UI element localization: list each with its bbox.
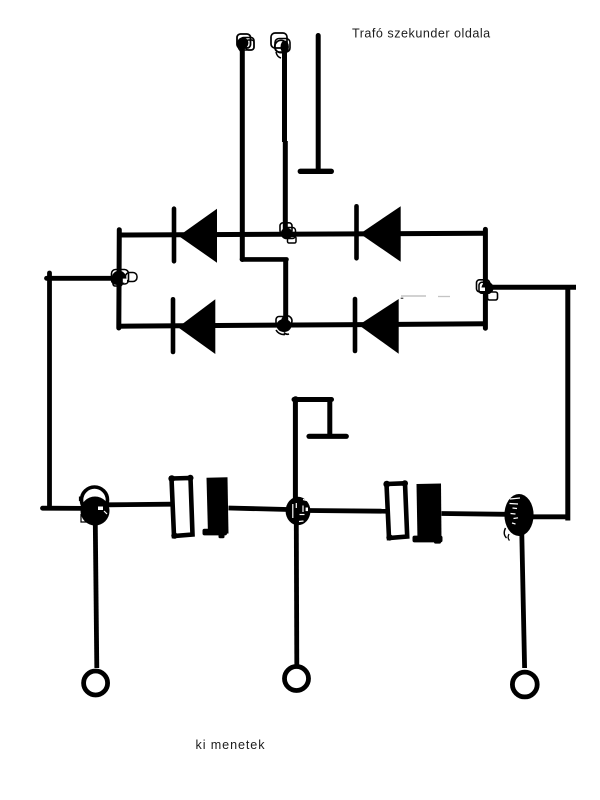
wire: bottom rail, center junction to right capacitor xyxy=(308,508,386,514)
lead C: end bar xyxy=(300,169,331,174)
ground symbol bottom bar xyxy=(309,434,346,439)
bridge: right edge xyxy=(483,229,488,328)
junction blob J1 (lead B joins top rail) xyxy=(280,223,296,243)
wire: center output lead down from J5 xyxy=(294,524,299,665)
diode D3 (bottom-left) triangle xyxy=(178,299,215,354)
diode D2 (top-right) cathode bar xyxy=(354,206,359,258)
ground symbol right vertical xyxy=(327,400,332,437)
wire: lead B vertical upper (x≈284.5, y 48-142) xyxy=(282,48,287,142)
wire: left branch horizontal (bridge left junction to left rail corner) xyxy=(47,276,120,281)
capacitor C2 left plate (outline) xyxy=(387,483,408,538)
output terminal ring O2 (center) xyxy=(285,667,309,691)
capacitor C1 left plate (outline) xyxy=(172,478,193,536)
ground symbol horizontal xyxy=(294,397,332,402)
ground symbol (center tap above rail): corner xyxy=(292,396,299,403)
bridge: bottom rail xyxy=(117,324,487,326)
svg-text:ki menetek: ki menetek xyxy=(196,738,266,752)
wire: right branch horizontal from bridge right junction xyxy=(490,285,576,290)
wire: left output lead down from Q1 xyxy=(95,524,97,668)
capacitor C2 right plate (solid) xyxy=(413,484,443,544)
wire: lead A lower vertical (x≈285.7) down to bottom bridge rail xyxy=(283,259,288,323)
wire: left branch vertical (x≈49.5) xyxy=(47,273,52,506)
output terminal ring O3 (right) xyxy=(512,672,537,697)
wire: lead A jog horizontal at y≈259 xyxy=(242,257,287,262)
wire: bottom rail left segment xyxy=(43,506,85,511)
wire: right branch vertical (x≈567.8) xyxy=(565,287,570,520)
junction blob J2 (lead A joins bottom rail) xyxy=(276,316,292,335)
terminal blob T1 (top of secondary lead A) xyxy=(237,34,254,53)
output terminal ring O1 (left) xyxy=(84,671,108,695)
wire: right branch bottom horizontal into blob Q2 xyxy=(531,514,570,519)
transistor blob Q1 (left): scribbled ring + filled body xyxy=(80,487,110,526)
bridge: top rail xyxy=(119,233,488,235)
diode D1 (top-left) triangle xyxy=(179,209,217,263)
diode D4 (bottom-right) triangle xyxy=(359,299,399,354)
wire: bottom rail, C1 to center junction xyxy=(229,508,289,510)
junction blob J5 (center of output rail) xyxy=(286,497,311,525)
junction blob J3 (left mid-point of bridge) xyxy=(112,270,138,287)
faint erased marks near D4 xyxy=(401,295,450,298)
diode D4 (bottom-right) cathode bar xyxy=(353,299,358,351)
lead C: transformer center lead vertical (x≈318) xyxy=(316,36,321,172)
wire: lead A vertical (x≈242) from blob down across top bridge rail xyxy=(240,45,245,260)
wire: right output lead down from Q2 xyxy=(522,534,525,668)
diode D3 (bottom-left) cathode bar xyxy=(171,299,176,352)
diode D2 (top-right) triangle xyxy=(360,206,401,261)
svg-text:Trafó szekunder oldala: Trafó szekunder oldala xyxy=(352,27,491,41)
junction blob J4 (right mid-point of bridge) xyxy=(477,280,498,300)
bridge: left edge xyxy=(116,230,122,328)
wire: bottom rail, C2 to right blob xyxy=(442,511,508,517)
terminal blob T2 (top of secondary lead B) xyxy=(271,33,290,58)
diode D1 (top-left) cathode bar xyxy=(172,209,177,262)
wire: center vertical from ground corner down to center junction xyxy=(293,400,298,500)
capacitor C1 right plate (solid) xyxy=(203,477,229,538)
wire: bottom rail, blob Q1 to left capacitor xyxy=(108,502,171,507)
wire: lead B vertical lower (x≈285.3, y 141-232) xyxy=(283,141,288,232)
transistor blob Q2 (right): filled body with scribbles xyxy=(504,494,533,541)
small dark tick above D4 corner xyxy=(401,297,404,299)
